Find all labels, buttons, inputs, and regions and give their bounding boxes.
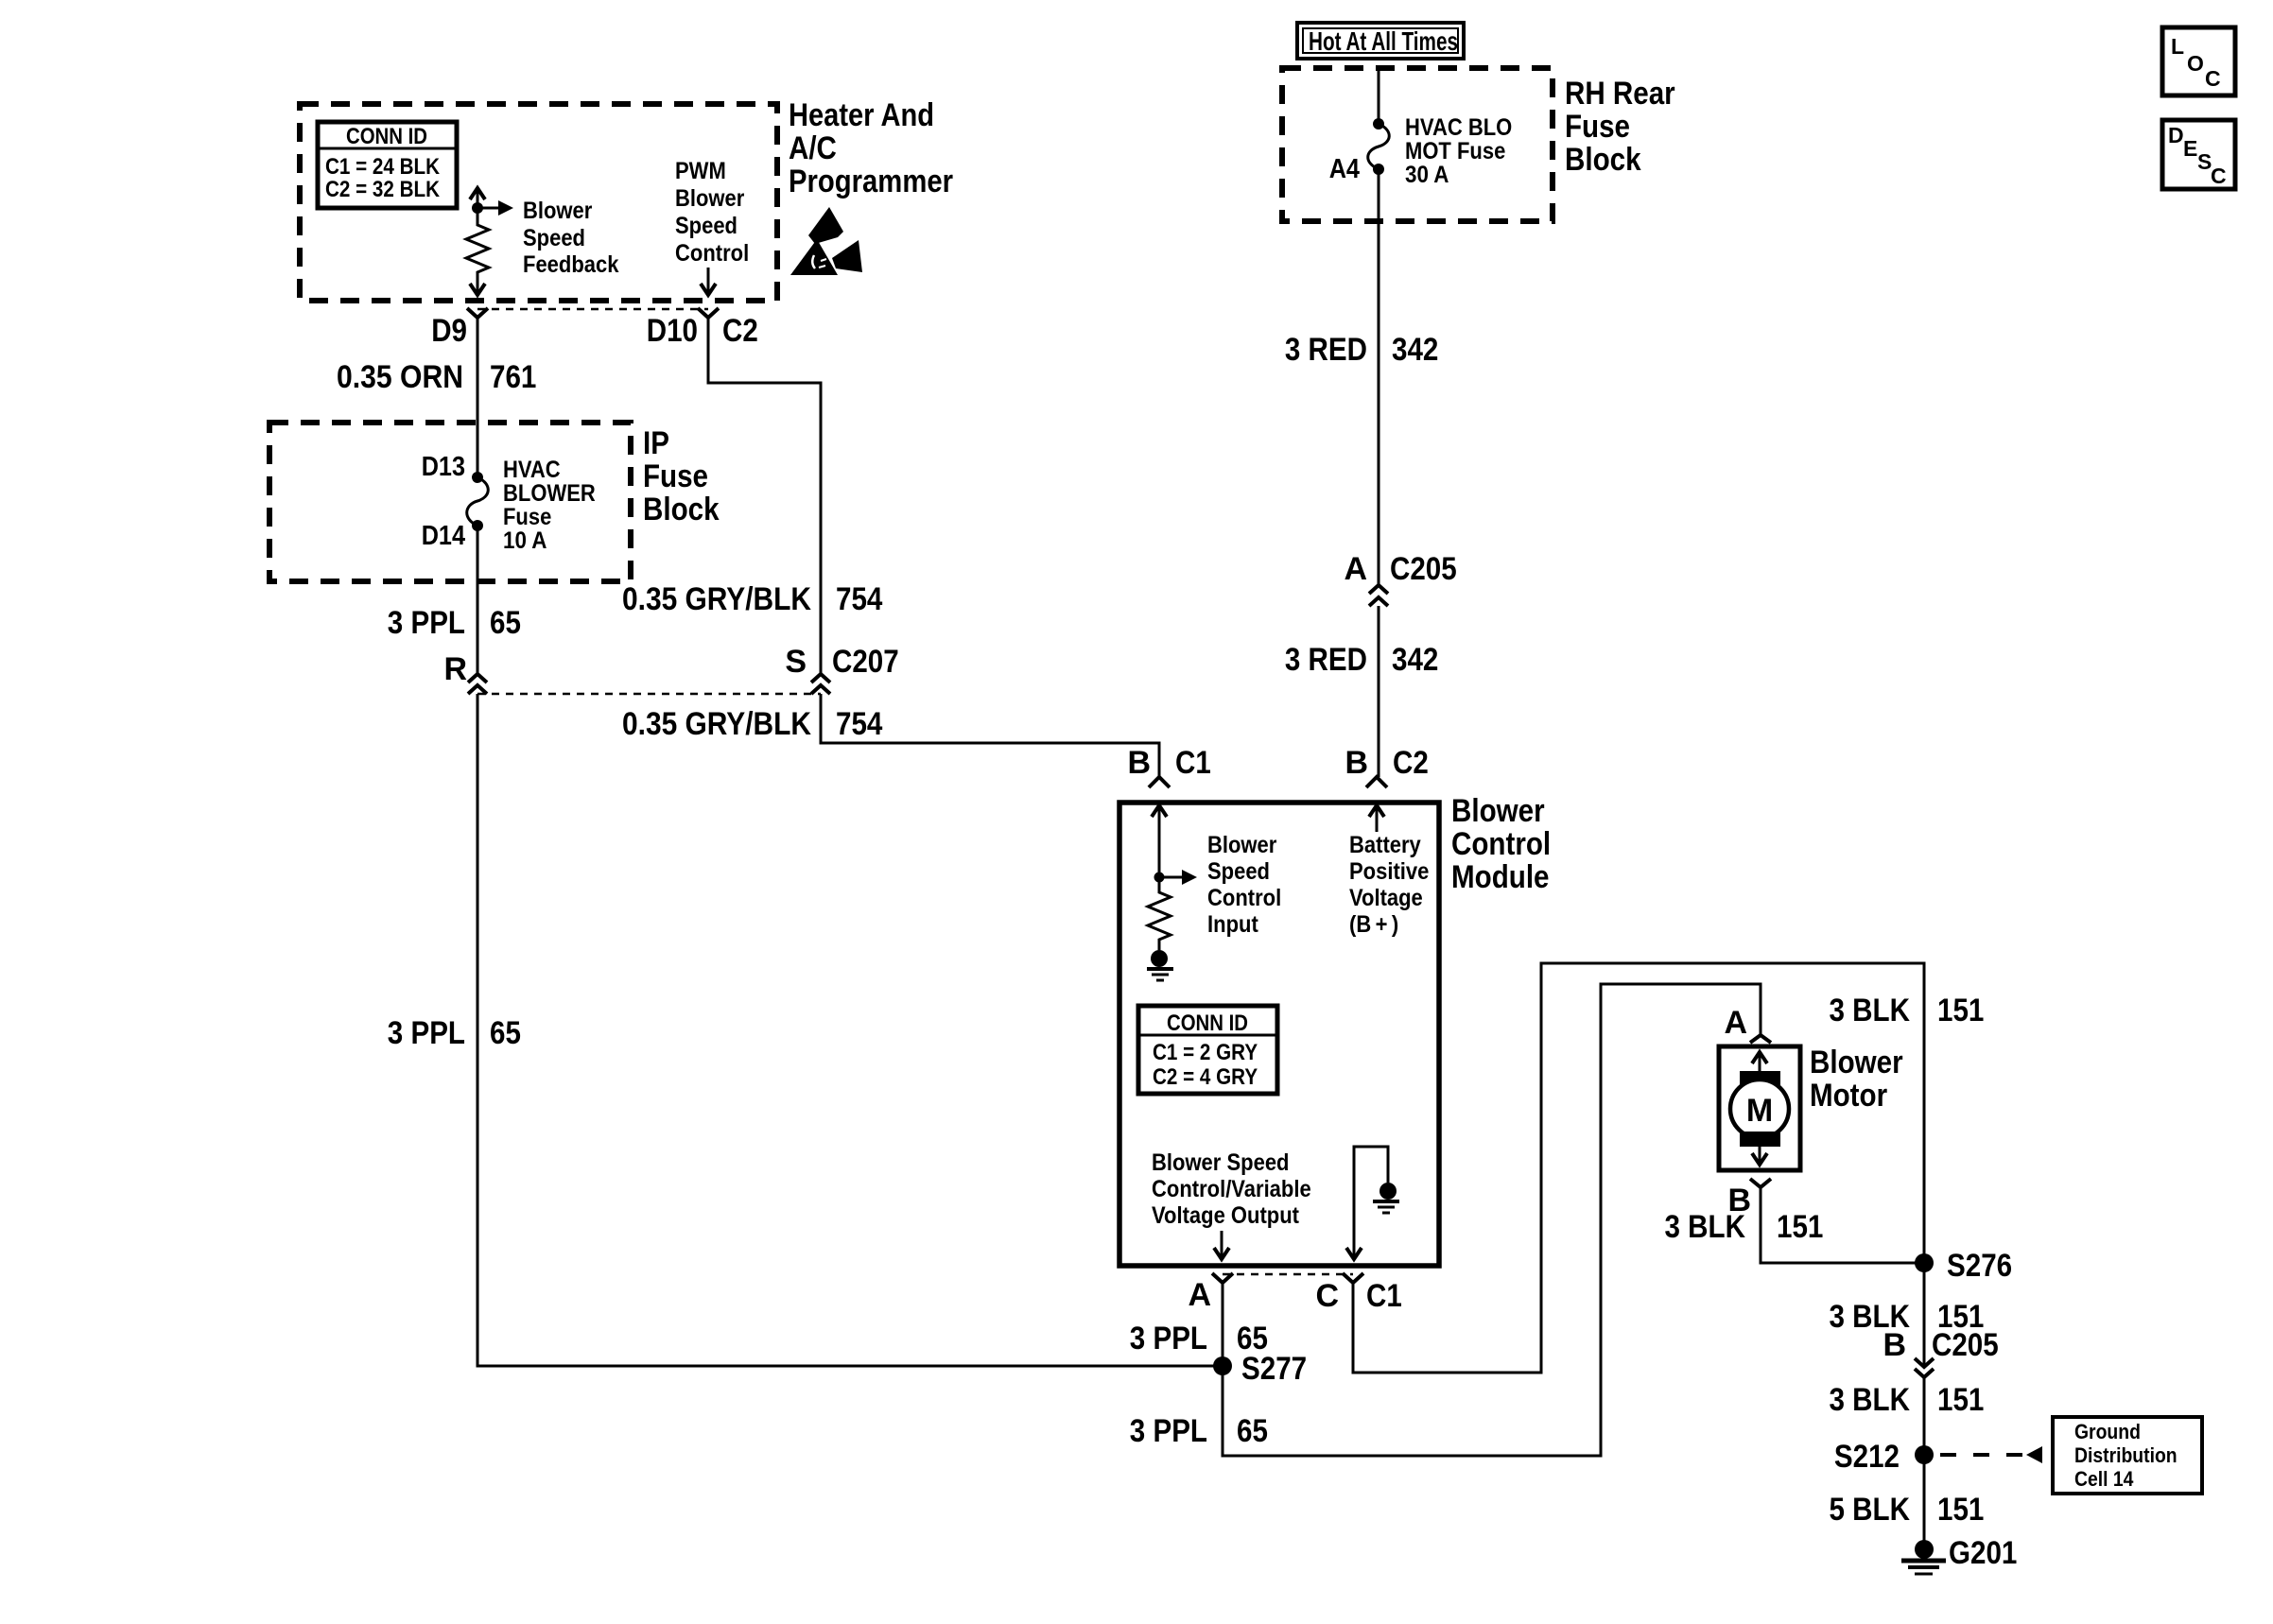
connector B (motor bottom, Y)	[1750, 1179, 1771, 1187]
svg-text:10 A: 10 A	[503, 527, 547, 554]
svg-text:L: L	[2171, 34, 2184, 59]
svg-text:Ground: Ground	[2074, 1420, 2141, 1443]
svg-text:Hot At All Times: Hot At All Times	[1309, 26, 1458, 56]
svg-text:Speed: Speed	[675, 213, 737, 239]
svg-text:342: 342	[1392, 642, 1438, 678]
svg-text:Distribution: Distribution	[2074, 1443, 2178, 1467]
svg-text:Blower: Blower	[1810, 1045, 1903, 1080]
wire label 3 BLK 151 (above S212)	[1830, 1382, 1985, 1418]
wire: PWM blower speed control output arrow	[701, 268, 716, 295]
label: HVAC BLO MOT Fuse 30 A	[1405, 114, 1512, 188]
wire: 3 BLK 151 (motor B to S276)	[1761, 1187, 1924, 1263]
svg-text:151: 151	[1777, 1209, 1823, 1245]
wire: 3 BLK 151 (S276 to C205 B)	[1923, 1263, 1926, 1367]
svg-text:C1 = 2 GRY: C1 = 2 GRY	[1153, 1040, 1258, 1065]
svg-text:O: O	[2187, 51, 2204, 76]
wire: 3 RED 342 (C205 to module B C2)	[1378, 606, 1380, 777]
connector C (module bottom, Y)	[1343, 1273, 1363, 1283]
svg-text:C: C	[2205, 66, 2221, 91]
wire label 3 BLK 151 (below S276)	[1830, 1299, 1985, 1335]
svg-text:761: 761	[490, 359, 536, 395]
ground: module internal (resistor)	[1147, 950, 1173, 980]
svg-text:G201: G201	[1949, 1535, 2017, 1571]
wire label 0.35 GRY/BLK 754 (upper)	[622, 581, 882, 617]
ground: module internal (B+ return)	[1373, 1183, 1399, 1213]
wire: module internal B C2 input arrow	[1369, 805, 1384, 832]
node: junction dot on speed control input	[1154, 872, 1165, 883]
svg-text:HVAC: HVAC	[503, 457, 561, 483]
svg-text:Voltage: Voltage	[1349, 885, 1423, 911]
svg-text:Fuse: Fuse	[1565, 109, 1630, 145]
svg-text:Fuse: Fuse	[503, 504, 551, 530]
svg-text:3 PPL: 3 PPL	[1130, 1413, 1207, 1449]
label: Blower Speed Feedback	[523, 198, 619, 278]
component: Blower Motor (box)	[1719, 1046, 1800, 1170]
svg-text:Block: Block	[643, 492, 720, 527]
label: Blower Motor	[1810, 1045, 1903, 1114]
svg-text:3 BLK: 3 BLK	[1830, 1382, 1911, 1418]
svg-text:D13: D13	[422, 452, 465, 482]
wire label 3 PPL 65 (lower left)	[388, 1015, 521, 1051]
svg-text:754: 754	[836, 706, 882, 742]
svg-text:D: D	[2168, 123, 2184, 147]
label box: Ground Distribution Cell 14	[2053, 1417, 2202, 1494]
svg-text:C1: C1	[1175, 745, 1211, 781]
svg-text:Cell 14: Cell 14	[2074, 1467, 2134, 1491]
arrow: C output (down)	[1346, 1248, 1362, 1259]
wire: 3 PPL 65 (D14 to R)	[477, 526, 479, 674]
svg-text:Programmer: Programmer	[789, 164, 953, 199]
svg-text:Blower: Blower	[523, 198, 593, 224]
fuse: HVAC BLOWER Fuse 10 A	[467, 472, 489, 531]
svg-text:Speed: Speed	[523, 225, 585, 251]
svg-text:Blower: Blower	[1207, 832, 1277, 858]
svg-text:C1 = 24 BLK: C1 = 24 BLK	[325, 154, 441, 180]
reference box LOC	[2162, 27, 2235, 95]
resistor: module internal (speed control input)	[1148, 877, 1171, 950]
wire: C output to S276 ground run	[1353, 963, 1924, 1373]
svg-text:M: M	[1746, 1093, 1773, 1129]
svg-text:B: B	[1345, 745, 1368, 781]
wire: 3 PPL 65 (R down to S277 run)	[477, 694, 1223, 1366]
wire label 3 RED 342 (upper)	[1285, 332, 1439, 368]
label: Blower Speed Control/Variable Voltage Output	[1152, 1149, 1311, 1229]
svg-text:IP: IP	[643, 425, 669, 461]
resistor: blower speed feedback (inside programmer)	[466, 188, 513, 295]
svg-text:Fuse: Fuse	[643, 458, 708, 494]
svg-text:CONN ID: CONN ID	[1167, 1011, 1248, 1036]
splice S212	[1915, 1445, 1934, 1464]
connector A (motor top, chevron)	[1750, 1035, 1771, 1043]
wire: module internal ground hook (C output)	[1354, 1147, 1388, 1257]
component: IP Fuse Block (dashed box)	[269, 423, 631, 581]
svg-text:Control/Variable: Control/Variable	[1152, 1176, 1311, 1202]
connector B C2 (module top, chevron)	[1366, 777, 1387, 787]
svg-text:C207: C207	[832, 644, 899, 680]
svg-text:3 PPL: 3 PPL	[388, 1015, 465, 1051]
svg-text:B: B	[1883, 1327, 1906, 1363]
svg-text:A: A	[1188, 1277, 1211, 1313]
connector B C1 (module top, chevron)	[1149, 777, 1170, 787]
svg-text:E: E	[2183, 136, 2197, 161]
wire label 3 PPL 65 (A output)	[1130, 1321, 1268, 1356]
svg-text:B: B	[1127, 745, 1151, 781]
wire: feed into fuse	[1378, 68, 1380, 124]
wire label 3 RED 342 (lower)	[1285, 642, 1439, 678]
svg-text:Module: Module	[1451, 859, 1550, 895]
wire label 0.35 GRY/BLK 754 (lower)	[622, 706, 882, 742]
svg-text:342: 342	[1392, 332, 1438, 368]
svg-text:C2: C2	[722, 313, 758, 349]
svg-text:Blower: Blower	[1451, 793, 1545, 829]
svg-text:S276: S276	[1947, 1248, 2012, 1284]
svg-text:0.35 GRY/BLK: 0.35 GRY/BLK	[622, 581, 811, 617]
svg-text:A: A	[1344, 551, 1367, 587]
reference box DESC	[2162, 120, 2235, 189]
ground G201	[1901, 1540, 1946, 1574]
connector dashed line R-S (C207)	[477, 693, 821, 696]
wire: 3 RED 342 (fuse to C205 A)	[1378, 169, 1380, 585]
motor internals	[1730, 1052, 1789, 1165]
svg-text:A4: A4	[1329, 154, 1360, 184]
svg-text:Speed: Speed	[1207, 858, 1270, 885]
svg-text:3 PPL: 3 PPL	[1130, 1321, 1207, 1356]
connector D10 (Y)	[698, 308, 719, 318]
label: Blower Speed Control Input	[1207, 832, 1281, 938]
svg-text:(B + ): (B + )	[1349, 911, 1398, 938]
svg-text:BLOWER: BLOWER	[503, 480, 596, 507]
connector dashed line D9-D10	[477, 308, 708, 311]
svg-text:Blower: Blower	[675, 185, 745, 212]
wire: 0.35 GRY/BLK 754 (D10 to S)	[708, 318, 821, 674]
component: RH Rear Fuse Block (dashed box)	[1282, 68, 1553, 221]
wire label 3 BLK 151 (motor B)	[1665, 1209, 1824, 1245]
label: PWM Blower Speed Control	[675, 158, 749, 267]
svg-text:Feedback: Feedback	[523, 251, 619, 278]
svg-text:151: 151	[1937, 1492, 1984, 1528]
svg-text:Heater And: Heater And	[789, 97, 934, 133]
arrow: blower speed control input (right)	[1159, 870, 1197, 885]
svg-text:65: 65	[490, 605, 521, 641]
svg-text:0.35 GRY/BLK: 0.35 GRY/BLK	[622, 706, 811, 742]
svg-text:S277: S277	[1241, 1351, 1307, 1387]
connector A C205 (double chevron)	[1369, 585, 1388, 606]
wire: 5 BLK 151 (S212 to G201)	[1923, 1455, 1926, 1541]
svg-text:S212: S212	[1834, 1439, 1900, 1475]
svg-text:RH Rear: RH Rear	[1565, 76, 1675, 112]
svg-text:C2 = 4 GRY: C2 = 4 GRY	[1153, 1064, 1258, 1090]
svg-text:30 A: 30 A	[1405, 162, 1449, 188]
connector D9 (Y)	[467, 308, 488, 318]
CONN ID table (programmer)	[318, 122, 457, 208]
connector R (C207 double chevron)	[468, 674, 487, 694]
svg-text:3 PPL: 3 PPL	[388, 605, 465, 641]
ESD sensitive symbol	[790, 207, 862, 275]
connector A (module bottom, Y)	[1212, 1273, 1233, 1283]
svg-text:Voltage Output: Voltage Output	[1152, 1202, 1300, 1229]
splice S276	[1915, 1253, 1934, 1272]
svg-text:MOT Fuse: MOT Fuse	[1405, 138, 1505, 164]
label: Battery Positive Voltage (B+)	[1349, 832, 1429, 938]
svg-text:151: 151	[1937, 993, 1984, 1028]
svg-text:Positive: Positive	[1349, 858, 1429, 885]
svg-text:151: 151	[1937, 1382, 1984, 1418]
dashed reference arrow to Ground Distribution	[1940, 1446, 2042, 1463]
label: HVAC BLOWER Fuse 10 A	[503, 457, 596, 554]
svg-text:Control: Control	[1451, 826, 1551, 862]
connector dashed line A-C (module bottom)	[1223, 1273, 1353, 1276]
svg-text:S: S	[785, 644, 807, 680]
svg-text:Motor: Motor	[1810, 1078, 1887, 1114]
wire: 0.35 ORN 761 (D9 to D13)	[477, 318, 479, 477]
svg-text:Blower Speed: Blower Speed	[1152, 1149, 1290, 1176]
svg-text:CONN ID: CONN ID	[346, 124, 427, 149]
svg-text:3 RED: 3 RED	[1285, 332, 1367, 368]
connector B C205 (double chevron down)	[1915, 1358, 1934, 1377]
svg-text:C2: C2	[1393, 745, 1429, 781]
svg-text:C: C	[2211, 164, 2227, 188]
svg-text:C205: C205	[1932, 1327, 1999, 1363]
splice S277	[1213, 1356, 1232, 1375]
connector S (C207 double chevron)	[811, 674, 830, 694]
svg-text:Input: Input	[1207, 911, 1258, 938]
label: IP Fuse Block	[643, 425, 720, 527]
component: Blower Control Module (box)	[1119, 803, 1439, 1266]
svg-text:Battery: Battery	[1349, 832, 1421, 858]
svg-text:Control: Control	[675, 240, 749, 267]
svg-text:HVAC BLO: HVAC BLO	[1405, 114, 1512, 141]
label: RH Rear Fuse Block	[1565, 76, 1675, 178]
svg-text:D14: D14	[422, 521, 465, 551]
svg-text:3 RED: 3 RED	[1285, 642, 1367, 678]
svg-text:754: 754	[836, 581, 882, 617]
svg-text:A: A	[1724, 1005, 1747, 1041]
label box: Hot At All Times	[1297, 23, 1464, 59]
svg-text:Control: Control	[1207, 885, 1281, 911]
wire: 3 BLK 151 (C205 to S212)	[1923, 1377, 1926, 1455]
svg-text:65: 65	[490, 1015, 521, 1051]
component: Heater And A/C Programmer (dashed box)	[300, 104, 777, 301]
svg-text:C: C	[1315, 1278, 1339, 1314]
svg-text:R: R	[443, 651, 467, 687]
svg-text:D10: D10	[647, 313, 698, 349]
wire: 0.35 GRY/BLK 754 (S to module B C1)	[821, 694, 1159, 777]
wire label 3 PPL 65 (below S277)	[1130, 1413, 1268, 1449]
fuse: HVAC BLO MOT Fuse 30 A	[1368, 118, 1390, 175]
svg-text:PWM: PWM	[675, 158, 726, 184]
wire label 3 BLK 151 (top right)	[1830, 993, 1985, 1028]
svg-text:A/C: A/C	[789, 130, 837, 166]
svg-text:5 BLK: 5 BLK	[1830, 1492, 1911, 1528]
wire: 3 PPL 65 (A to S277)	[1222, 1283, 1224, 1366]
svg-text:D9: D9	[431, 313, 467, 349]
wire label 3 PPL 65 (upper)	[388, 605, 521, 641]
wire: 3 PPL 65 (S277 down and right to motor A feed)	[1223, 984, 1761, 1456]
svg-text:65: 65	[1237, 1413, 1268, 1449]
CONN ID table (module)	[1138, 1006, 1277, 1094]
svg-text:C2 = 32 BLK: C2 = 32 BLK	[325, 177, 441, 202]
arrow: variable voltage output (down, to A)	[1214, 1231, 1229, 1259]
wire label 0.35 ORN 761	[337, 359, 536, 395]
wire label 5 BLK 151	[1830, 1492, 1985, 1528]
label: Blower Control Module	[1451, 793, 1551, 895]
label: Heater And A/C Programmer	[789, 97, 953, 199]
svg-text:3 BLK: 3 BLK	[1830, 993, 1911, 1028]
svg-text:0.35 ORN: 0.35 ORN	[337, 359, 463, 395]
wire: module internal B C1 input arrow	[1152, 805, 1167, 877]
svg-text:C205: C205	[1390, 551, 1457, 587]
svg-text:3 BLK: 3 BLK	[1665, 1209, 1746, 1245]
svg-text:C1: C1	[1366, 1278, 1402, 1314]
svg-text:Block: Block	[1565, 142, 1641, 178]
